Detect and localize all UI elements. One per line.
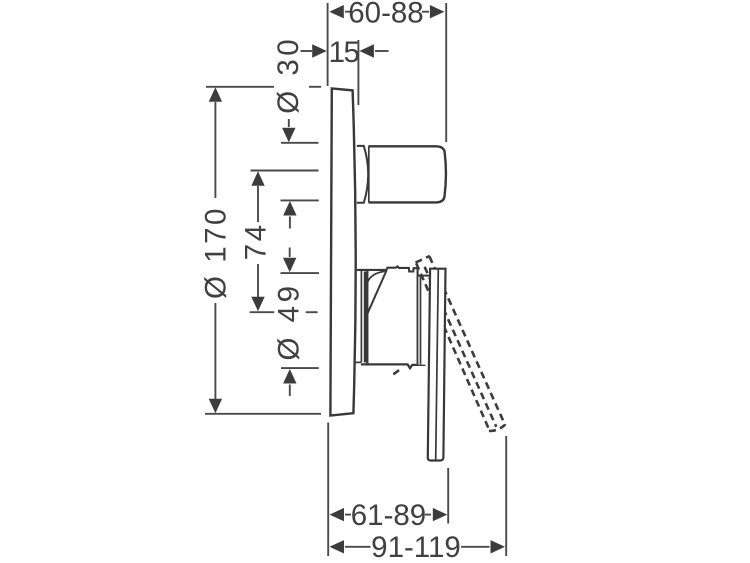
svg-text:Ø 49: Ø 49 <box>272 283 305 361</box>
svg-text:91-119: 91-119 <box>371 531 461 563</box>
cartridge body left edge <box>366 270 368 364</box>
cone fillet curve <box>367 271 385 284</box>
escutcheon plate (side view) <box>330 88 355 415</box>
dashed lever bottom cap <box>489 425 505 431</box>
Ø49 top arrow down <box>283 248 296 273</box>
cartridge body right edge <box>417 268 419 364</box>
tick Ø30 top (knob top) <box>281 142 319 144</box>
extension line top-left (plate front face) <box>327 3 329 86</box>
Ø30 leader arrow down <box>282 119 295 142</box>
dimension 74 vertical line + arrows <box>251 171 264 311</box>
small dash below body <box>393 370 399 374</box>
svg-text:Ø 30: Ø 30 <box>272 36 305 114</box>
cartridge sleeve thick bar <box>364 272 367 363</box>
knob cylinder left cap line <box>368 146 370 202</box>
neck vertical line <box>420 276 422 365</box>
dimension 61-89 arrows <box>330 508 448 521</box>
tick Ø170 bottom <box>205 413 321 415</box>
neck white fill <box>418 276 429 365</box>
dimension 15 arrows <box>301 44 389 57</box>
dimension 60-88 arrows and line <box>329 5 444 18</box>
dimension 91-119 arrows <box>330 540 506 553</box>
sleeve bottom step <box>356 361 362 363</box>
Ø49 bottom arrow up <box>283 369 296 396</box>
extension line 15 right <box>357 40 359 105</box>
dashed lever right edge <box>430 257 506 426</box>
svg-text:Ø 170: Ø 170 <box>200 206 233 299</box>
tick Ø30 bottom (knob bottom) <box>281 199 319 201</box>
svg-text:60-88: 60-88 <box>348 0 423 30</box>
tick Ø49 bottom <box>281 367 319 369</box>
extension line bottom-right (dashed lever tip) <box>505 436 507 556</box>
dashed lever top cap <box>416 256 430 263</box>
extension line top-right (60-88 far end) <box>445 3 447 142</box>
knob collar <box>357 146 368 203</box>
cartridge sleeve thin line <box>360 270 362 362</box>
dashed lever left edge <box>416 263 489 430</box>
cartridge body top edge (ragged) <box>357 266 418 271</box>
tick Ø49 top <box>281 272 320 274</box>
extension line bottom-middle (lever) <box>447 468 449 524</box>
lever handle (closed position) <box>428 269 446 461</box>
tick 74 bottom <box>250 311 275 313</box>
extension line bottom-left <box>327 423 329 557</box>
dashed lever middle contour <box>425 267 497 427</box>
svg-text:74: 74 <box>239 222 272 260</box>
dimension Ø170 vertical line + arrows <box>209 87 222 413</box>
neck top edge <box>418 275 430 277</box>
Ø30 bottom arrow up <box>283 201 296 229</box>
svg-text:61-89: 61-89 <box>351 499 426 532</box>
knob cylinder Ø30 <box>368 146 446 202</box>
lever inner contour <box>436 269 439 460</box>
tick Ø170 top <box>206 86 274 88</box>
cone diagonal inside body <box>366 270 387 317</box>
tick 74 top <box>251 170 319 172</box>
svg-text:15: 15 <box>329 36 360 69</box>
cartridge body bottom edge with notch <box>361 364 425 368</box>
